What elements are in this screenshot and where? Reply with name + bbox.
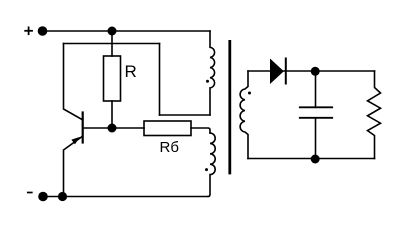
svg-text:Rб: Rб bbox=[160, 139, 179, 156]
wire base lead bbox=[84, 127, 144, 129]
wire bottom rail bbox=[43, 196, 208, 198]
load resistor zigzag bbox=[368, 71, 381, 159]
capacitor C bottom lead bbox=[315, 118, 317, 159]
capacitor C top plate bbox=[300, 106, 332, 108]
node top junction bbox=[108, 27, 117, 36]
svg-text:R: R bbox=[125, 62, 137, 81]
winding III (secondary) bbox=[240, 71, 248, 159]
transistor Q1 base bar bbox=[82, 113, 84, 143]
winding I phase dot bbox=[206, 80, 209, 83]
+ terminal label bbox=[25, 27, 32, 34]
node base junction bbox=[108, 124, 117, 133]
wire Rb to winding II bbox=[191, 128, 210, 133]
transistor Q1 collector lead bbox=[64, 44, 83, 120]
wire winding I return vertical bbox=[159, 44, 161, 116]
wire collector return (top horizontal) bbox=[64, 43, 160, 45]
transistor Q1 emitter lead bbox=[64, 136, 83, 196]
wire secondary bottom rail bbox=[248, 158, 375, 160]
wire winding I bottom bbox=[160, 114, 211, 116]
capacitor C top lead bbox=[315, 71, 317, 107]
winding II (feedback) bbox=[208, 133, 215, 197]
winding III phase dot bbox=[248, 92, 251, 95]
winding II phase dot bbox=[205, 168, 208, 171]
resistor R bbox=[104, 56, 121, 101]
winding I (primary) bbox=[210, 31, 215, 115]
node minus-terminal bbox=[38, 192, 48, 202]
node emitter junction bbox=[58, 192, 67, 201]
diode VD cathode bar bbox=[285, 59, 287, 84]
capacitor C bottom plate bbox=[300, 117, 332, 119]
resistor Rb bbox=[144, 121, 191, 136]
transistor Q1 emitter arrow bbox=[71, 137, 80, 145]
- terminal label bbox=[28, 192, 32, 194]
wire R bottom to base node bbox=[111, 101, 113, 128]
wire node to R top bbox=[111, 31, 113, 56]
wire secondary top rail bbox=[248, 70, 375, 72]
node capacitor top bbox=[311, 67, 320, 76]
node plus-terminal bbox=[38, 26, 48, 36]
node capacitor bottom bbox=[311, 155, 320, 164]
wire top rail bbox=[43, 30, 211, 32]
transformer core bbox=[228, 41, 231, 173]
diode VD triangle bbox=[270, 59, 284, 85]
